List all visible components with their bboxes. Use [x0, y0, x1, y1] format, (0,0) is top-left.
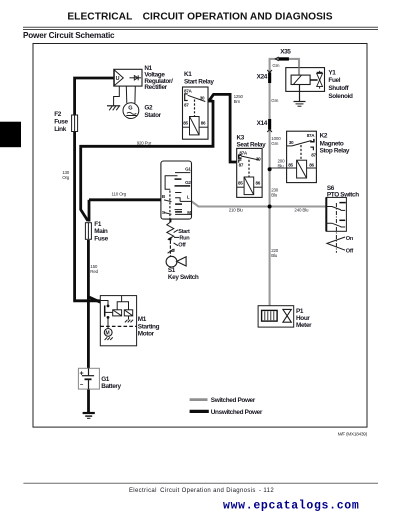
svg-text:Shutoff: Shutoff	[328, 85, 349, 92]
svg-text:Rectifier: Rectifier	[144, 84, 167, 91]
svg-text:Battery: Battery	[101, 383, 121, 390]
svg-text:G1: G1	[185, 167, 191, 172]
svg-text:Brn: Brn	[234, 99, 241, 104]
svg-text:Link: Link	[54, 126, 67, 133]
svg-text:30: 30	[256, 156, 261, 161]
svg-text:F2: F2	[54, 111, 62, 118]
svg-text:86: 86	[256, 181, 261, 186]
svg-text:240 Blu: 240 Blu	[294, 208, 309, 213]
svg-text:X14: X14	[257, 120, 268, 127]
svg-text:Starting: Starting	[138, 323, 160, 330]
svg-text:920 Pur: 920 Pur	[137, 141, 152, 146]
svg-text:Org: Org	[62, 175, 70, 180]
svg-text:www.epcatalogs.com: www.epcatalogs.com	[223, 500, 359, 513]
svg-text:Grn: Grn	[272, 63, 280, 68]
svg-text:Blu: Blu	[278, 163, 285, 168]
svg-text:Off: Off	[178, 242, 186, 248]
svg-text:Blu: Blu	[271, 253, 278, 258]
svg-text:Power Circuit Schematic: Power Circuit Schematic	[23, 31, 115, 40]
svg-text:85: 85	[183, 121, 188, 126]
svg-text:Blu: Blu	[271, 193, 278, 198]
svg-text:K1: K1	[184, 71, 192, 78]
svg-text:On: On	[346, 236, 354, 242]
svg-text:Grn: Grn	[271, 141, 279, 146]
svg-text:Seat Relay: Seat Relay	[237, 142, 267, 149]
svg-text:P1: P1	[296, 308, 304, 315]
svg-text:Motor: Motor	[138, 331, 155, 338]
svg-text:M1: M1	[138, 316, 147, 323]
svg-text:30: 30	[289, 140, 294, 145]
svg-text:K3: K3	[237, 134, 245, 141]
svg-text:85: 85	[288, 163, 293, 168]
svg-text:Stator: Stator	[144, 112, 161, 119]
svg-text:Fuse: Fuse	[54, 119, 68, 126]
svg-text:ELECTRICAL CIRCUIT OPERATION: ELECTRICAL CIRCUIT OPERATION AND DIAGNOS…	[67, 12, 332, 23]
svg-text:86: 86	[309, 163, 314, 168]
svg-text:G2: G2	[185, 180, 191, 185]
svg-text:87: 87	[239, 163, 244, 168]
svg-text:Switched Power: Switched Power	[211, 397, 256, 404]
svg-text:Solenoid: Solenoid	[328, 93, 353, 100]
svg-text:F1: F1	[94, 221, 102, 228]
svg-text:Start: Start	[178, 229, 190, 235]
svg-text:X35: X35	[280, 48, 291, 55]
svg-text:Fuse: Fuse	[94, 235, 108, 242]
svg-text:87A: 87A	[184, 89, 193, 94]
svg-text:G: G	[128, 105, 132, 111]
svg-text:87: 87	[311, 152, 316, 157]
svg-text:Off: Off	[346, 249, 354, 255]
svg-text:Magneto: Magneto	[320, 140, 344, 147]
svg-text:Unswitched Power: Unswitched Power	[211, 409, 263, 416]
svg-text:Hour: Hour	[296, 315, 310, 322]
svg-text:Grn: Grn	[271, 98, 279, 103]
svg-text:Fuel: Fuel	[328, 77, 340, 84]
svg-text:M/F (MX18439): M/F (MX18439)	[338, 431, 368, 436]
svg-text:86: 86	[201, 121, 206, 126]
svg-text:K2: K2	[320, 132, 328, 139]
svg-text:30: 30	[200, 96, 205, 101]
svg-text:+: +	[80, 371, 84, 378]
svg-text:85: 85	[238, 181, 243, 186]
svg-text:X24: X24	[257, 73, 268, 80]
svg-text:G1: G1	[101, 376, 110, 383]
svg-text:Key Switch: Key Switch	[168, 274, 199, 281]
svg-text:Electrical Circuit Operation a: Electrical Circuit Operation and Diagnos…	[129, 488, 274, 494]
svg-text:210 Blu: 210 Blu	[229, 207, 244, 212]
svg-text:Start Relay: Start Relay	[184, 78, 214, 85]
svg-text:87A: 87A	[307, 133, 316, 138]
svg-text:87: 87	[184, 103, 189, 108]
svg-text:110 Org: 110 Org	[112, 191, 127, 196]
svg-text:M: M	[106, 330, 110, 336]
svg-text:Run: Run	[179, 236, 190, 242]
svg-text:PTO Switch: PTO Switch	[327, 191, 359, 198]
svg-text:Meter: Meter	[296, 322, 312, 329]
svg-text:Stop Relay: Stop Relay	[320, 147, 350, 154]
svg-text:U: U	[116, 76, 120, 82]
svg-text:Y1: Y1	[328, 69, 336, 76]
svg-text:Red: Red	[90, 269, 98, 274]
svg-text:G2: G2	[144, 104, 153, 111]
svg-text:Main: Main	[94, 228, 108, 235]
